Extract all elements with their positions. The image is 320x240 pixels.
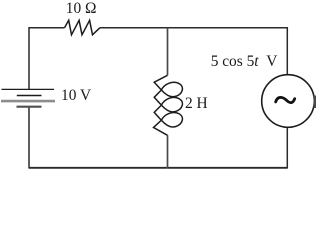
wire: right branch vertical (AC source branch) bbox=[286, 27, 288, 169]
wire: middle branch vertical (inductor branch) bbox=[167, 28, 169, 169]
battery V1 plate: top long bbox=[2, 88, 55, 90]
inductor L1 (2 H coil, three loops) bbox=[154, 75, 183, 135]
wire: left branch vertical (battery branch) bbox=[28, 27, 30, 169]
resistor R (10 ohm, sawtooth zigzag in top wire) bbox=[65, 20, 101, 35]
AC source circle bbox=[262, 75, 315, 128]
value label 10 V (battery) bbox=[61, 87, 91, 105]
wire: top horizontal (node between R1, L1 and source) bbox=[29, 27, 287, 29]
battery V1 plate: bottom short bbox=[17, 106, 42, 108]
value label 10 Ω (resistor) bbox=[66, 0, 97, 18]
wire: bottom horizontal (ground return) bbox=[29, 167, 287, 169]
battery V1 plate: lower long (gray) bbox=[1, 100, 55, 103]
artifact tick on right edge of AC circle bbox=[314, 96, 316, 109]
value label 2 H (inductor) bbox=[185, 95, 208, 113]
AC source sine symbol (~) bbox=[276, 97, 295, 102]
value label 5 cos 5t V (AC source) bbox=[211, 53, 278, 71]
battery V1 plate: upper short bbox=[17, 95, 42, 97]
